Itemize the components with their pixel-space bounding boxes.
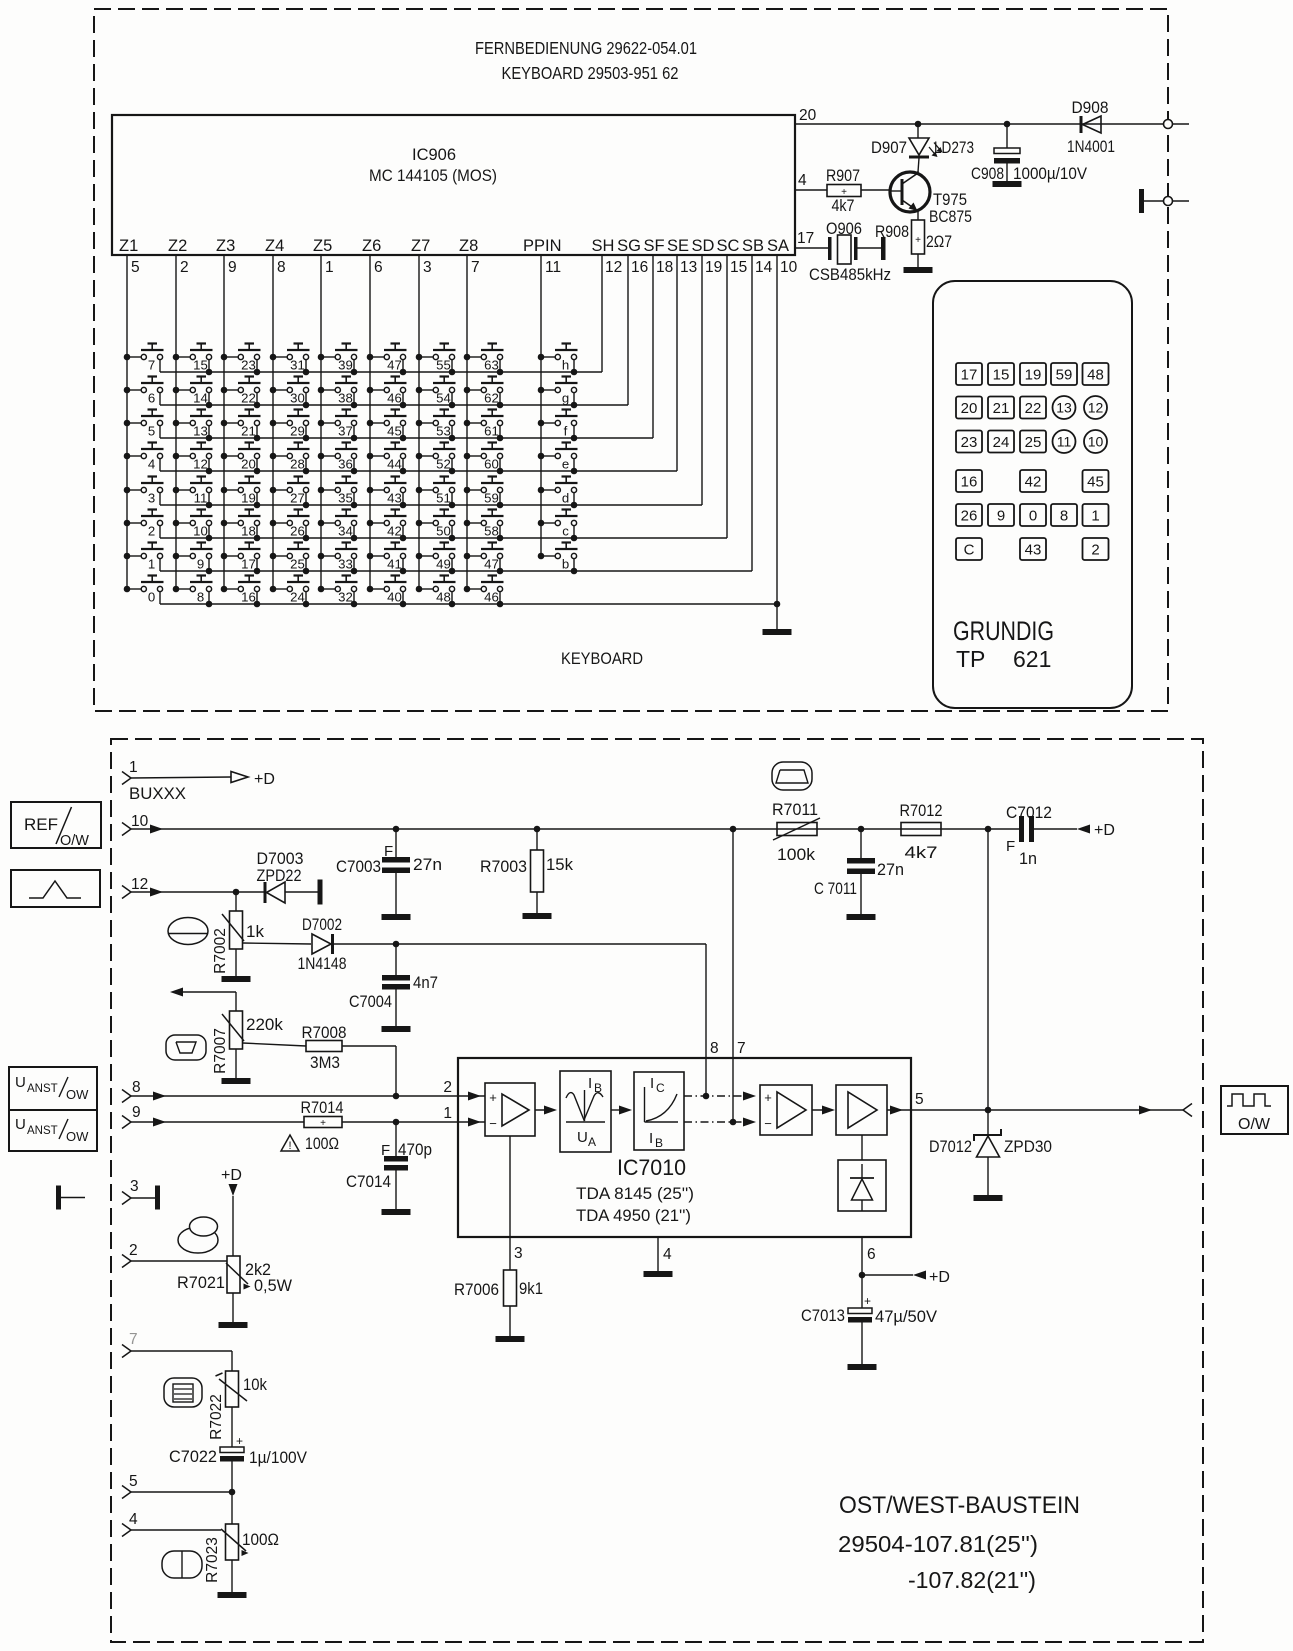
open arrow +D (BUXXX): [231, 771, 275, 788]
svg-text:1: 1: [148, 557, 155, 572]
wire row SC: [160, 537, 727, 539]
svg-text:IC7010: IC7010: [617, 1155, 686, 1180]
svg-text:50: 50: [436, 524, 451, 539]
svg-text:47: 47: [484, 557, 499, 572]
pushbutton key 60 (Z8 row4): [464, 443, 504, 475]
svg-text:g: g: [562, 391, 569, 406]
svg-text:32: 32: [338, 590, 353, 605]
svg-text:42: 42: [1025, 474, 1042, 491]
ground (C7004): [382, 1026, 411, 1032]
node net8/rowA: [703, 1093, 710, 1100]
pushbutton key 58 (Z8 row6): [464, 510, 504, 542]
svg-text:+D: +D: [254, 771, 275, 788]
label R7003: [480, 857, 527, 876]
svg-text:26: 26: [961, 508, 978, 525]
pushbutton key 38 (Z5 row2): [318, 377, 358, 409]
pushbutton key 23 (Z3 row1): [221, 344, 261, 376]
svg-text:C7003: C7003: [336, 857, 381, 876]
wire column Z2: [175, 255, 177, 589]
svg-text:46: 46: [387, 391, 402, 406]
IC906 pin label SH: [592, 237, 615, 255]
label 4 (pin): [663, 1246, 672, 1263]
svg-text:5: 5: [915, 1091, 924, 1108]
svg-text:27n: 27n: [413, 855, 442, 874]
svg-text:U: U: [15, 1074, 26, 1091]
left tag parabola pulse: [11, 870, 100, 907]
svg-text:C7013: C7013: [801, 1306, 845, 1325]
ground (C7003): [382, 914, 411, 920]
svg-text:+: +: [489, 1090, 497, 1105]
svg-text:c: c: [562, 524, 569, 539]
wire SA ground stem: [776, 604, 778, 629]
svg-text:R908: R908: [875, 222, 909, 241]
label F (C7012): [1006, 838, 1015, 855]
remote button 23: [956, 431, 982, 453]
svg-text:14: 14: [755, 259, 773, 276]
connector chevron output: [1183, 1104, 1192, 1117]
svg-text:2: 2: [180, 259, 189, 276]
trimmer icon (R7022): [164, 1378, 202, 1407]
wire column SA: [776, 255, 778, 604]
wire pin8 to IC7010 pin2: [131, 1092, 485, 1101]
svg-text:O/W: O/W: [60, 833, 89, 849]
label T975: [933, 190, 967, 209]
potentiometer R7023 100R: [221, 1524, 249, 1560]
buffer amp U1c: [836, 1085, 887, 1135]
pushbutton key 41 (Z6 row7): [367, 543, 407, 575]
svg-text:ZPD22: ZPD22: [257, 866, 302, 885]
svg-text:C7012: C7012: [1006, 803, 1052, 822]
svg-text:8: 8: [1060, 508, 1068, 525]
label 7 (net): [737, 1040, 746, 1057]
resistor R7014 100R: [304, 1117, 342, 1130]
svg-text:7: 7: [737, 1040, 746, 1057]
ground (R7023): [218, 1560, 247, 1598]
pushbutton key 33 (Z5 row7): [318, 543, 358, 575]
IC906 pin label SA: [767, 237, 789, 255]
transistor T975 BC875: [890, 171, 930, 220]
wire pin10 rail: [131, 825, 1019, 834]
wire R907 to base: [861, 189, 890, 191]
svg-text:GRUNDIG: GRUNDIG: [953, 616, 1054, 646]
svg-text:31: 31: [290, 358, 305, 373]
resistor R908: [912, 220, 925, 254]
svg-text:d: d: [562, 491, 569, 506]
potentiometer R7011 100k: [773, 818, 820, 840]
label 1n: [1019, 849, 1037, 868]
connector pin 7 (faint): [122, 1331, 138, 1358]
svg-text:C: C: [964, 542, 975, 559]
svg-text:Z2: Z2: [168, 237, 187, 255]
label R7007 (vertical): [212, 1028, 229, 1074]
TP 621 text: [956, 646, 1051, 672]
label D7012: [929, 1137, 972, 1156]
pushbutton key 50 (Z7 row6): [416, 510, 456, 542]
wire column Z7: [418, 255, 420, 589]
arrow feed (R7007 top): [170, 988, 236, 1012]
wire column SD: [701, 255, 703, 505]
zener D7012 ZPD30: [974, 1110, 1001, 1195]
node pin6: [859, 1272, 866, 1279]
label 8 (net): [710, 1040, 719, 1057]
IC906 pin label PPIN: [523, 237, 562, 255]
label D7002: [302, 915, 342, 934]
LED D907 LD273: [909, 124, 943, 172]
node net7/rowB: [730, 1119, 737, 1126]
pushbutton key 26 (Z4 row6): [270, 510, 310, 542]
ost/west module dashed frame: [111, 739, 1203, 1642]
pushbutton key 45 (Z6 row3): [367, 410, 407, 442]
pushbutton key 42 (Z6 row6): [367, 510, 407, 542]
wire row SE: [160, 470, 677, 472]
GRUNDIG TP621 remote outline: [933, 281, 1132, 708]
svg-text:5: 5: [129, 1473, 138, 1490]
ground (R7002): [222, 949, 251, 982]
wire IC pin6: [861, 1237, 863, 1275]
label F (C7014): [381, 1142, 390, 1159]
wire rowB dashdot: [684, 1118, 756, 1127]
svg-text:34: 34: [338, 524, 353, 539]
svg-text:Z8: Z8: [459, 237, 478, 255]
label ZPD30: [1004, 1137, 1052, 1156]
svg-text:54: 54: [436, 391, 451, 406]
wire R7002 wiper to D7002: [243, 943, 312, 944]
ground (R7007): [222, 1049, 251, 1084]
svg-text:16: 16: [631, 259, 648, 276]
svg-text:−: −: [489, 1116, 497, 1131]
wire pin3 to terminal: [131, 1197, 155, 1199]
svg-text:+: +: [864, 1294, 871, 1308]
label ZPD22: [257, 866, 302, 885]
pushbutton key e (PPIN row4): [538, 443, 578, 475]
wire column PPIN: [540, 255, 542, 556]
svg-text:36: 36: [338, 457, 353, 472]
wire IC pin4: [657, 1237, 659, 1271]
svg-text:C7014: C7014: [346, 1172, 391, 1191]
svg-text:R7007: R7007: [212, 1028, 229, 1074]
IC906 pin number 2 (Z2): [180, 259, 189, 276]
svg-text:29504-107.81(25''): 29504-107.81(25''): [838, 1531, 1038, 1557]
svg-text:+D: +D: [1094, 822, 1115, 839]
svg-text:SG: SG: [617, 237, 641, 255]
svg-text:e: e: [562, 457, 569, 472]
svg-text:22: 22: [1025, 400, 1042, 417]
svg-text:R7006: R7006: [454, 1280, 499, 1299]
svg-text:17: 17: [241, 557, 256, 572]
block IC/IB: [634, 1072, 684, 1150]
wire pin17 to crystal: [795, 247, 828, 249]
label 27n (C7003): [413, 855, 442, 874]
svg-text:47µ/50V: 47µ/50V: [875, 1307, 938, 1326]
svg-text:46: 46: [484, 590, 499, 605]
wire net8 vertical: [705, 944, 707, 1096]
wire column SC: [726, 255, 728, 538]
svg-text:LD273: LD273: [934, 138, 974, 157]
label 2R7: [926, 232, 952, 251]
+D feed (pin6): [862, 1269, 950, 1286]
connector pin 5: [122, 1473, 138, 1499]
wire column SB: [751, 255, 753, 571]
svg-text:16: 16: [241, 590, 256, 605]
svg-text:13: 13: [680, 259, 697, 276]
pushbutton key c (PPIN row6): [538, 510, 578, 542]
svg-text:60: 60: [484, 457, 499, 472]
connector pin 2: [122, 1242, 138, 1268]
svg-text:OW: OW: [66, 1087, 89, 1102]
label 10k: [243, 1375, 267, 1394]
IC906 pin label Z1: [119, 237, 138, 255]
svg-text:15: 15: [730, 259, 747, 276]
diode D7002 1N4148: [312, 934, 334, 954]
label 27n (C7011): [877, 860, 904, 879]
svg-text:20: 20: [961, 400, 978, 417]
remote button 19: [1020, 363, 1046, 385]
resistor R7006 9k1: [504, 1270, 517, 1306]
svg-text:R7023: R7023: [204, 1537, 221, 1583]
IC906 pin number 14 (SB): [755, 259, 773, 276]
svg-text:SE: SE: [667, 237, 689, 255]
svg-text:6: 6: [374, 259, 383, 276]
node pin10 rail / net7: [730, 826, 737, 833]
svg-text:+D: +D: [929, 1269, 950, 1286]
remote button 0: [1020, 504, 1046, 526]
connector pin 3: [122, 1178, 139, 1205]
svg-text:SC: SC: [717, 237, 740, 255]
wire column SE: [676, 255, 678, 471]
svg-text:18: 18: [241, 524, 256, 539]
svg-text:42: 42: [387, 524, 402, 539]
resistor R7003: [531, 826, 544, 913]
svg-text:22: 22: [241, 391, 256, 406]
svg-text:U: U: [15, 1116, 26, 1133]
svg-text:I: I: [649, 1130, 653, 1147]
label 1000u/10V: [1013, 164, 1088, 183]
svg-text:D908: D908: [1072, 98, 1109, 117]
IC906 pin label SE: [667, 237, 689, 255]
svg-text:9: 9: [197, 557, 204, 572]
pushbutton key d (PPIN row5): [538, 477, 578, 509]
IC906 pin label SB: [742, 237, 764, 255]
IC906 pin number 1 (Z5): [325, 259, 334, 276]
pushbutton key 29 (Z4 row3): [270, 410, 310, 442]
svg-text:100Ω: 100Ω: [242, 1530, 279, 1549]
svg-text:470p: 470p: [398, 1140, 432, 1159]
svg-text:58: 58: [484, 524, 499, 539]
label 1u/100V: [249, 1448, 308, 1467]
remote button 48: [1083, 363, 1109, 385]
svg-text:PPIN: PPIN: [523, 237, 562, 255]
node pin12/R7002: [233, 889, 240, 896]
label D907: [871, 138, 907, 157]
label 100R: [305, 1135, 339, 1153]
left tag UANST/OW (1): [9, 1067, 97, 1110]
pushbutton key 63 (Z8 row1): [464, 344, 504, 376]
label BC875: [929, 207, 972, 226]
label LD273: [934, 138, 974, 157]
pushbutton key 28 (Z4 row4): [270, 443, 310, 475]
svg-text:1k: 1k: [246, 922, 264, 941]
remote button 11: [1053, 430, 1076, 453]
wire column SH: [601, 255, 603, 372]
svg-text:TDA 4950 (21''): TDA 4950 (21''): [576, 1206, 691, 1225]
svg-text:CSB485kHz: CSB485kHz: [809, 265, 891, 284]
wire R7014 to IC7010 pin1: [342, 1118, 485, 1127]
svg-text:16: 16: [961, 474, 978, 491]
svg-text:12: 12: [131, 876, 148, 893]
svg-text:20: 20: [241, 457, 256, 472]
svg-text:+: +: [915, 235, 921, 246]
svg-text:43: 43: [387, 491, 402, 506]
svg-text:4: 4: [129, 1511, 138, 1528]
pushbutton key 39 (Z5 row1): [318, 344, 358, 376]
protection diode box: [838, 1135, 886, 1211]
wire R908 to ground: [917, 254, 919, 267]
pushbutton key 24 (Z4 row8): [270, 576, 310, 608]
svg-text:3M3: 3M3: [310, 1053, 340, 1072]
pushbutton key 15 (Z2 row1): [173, 344, 213, 376]
terminal bar (pin3): [155, 1186, 160, 1210]
pushbutton key 13 (Z2 row3): [173, 410, 213, 442]
label C7003: [336, 857, 381, 876]
IC7010 pin 1 label: [443, 1105, 452, 1122]
svg-text:8: 8: [277, 259, 286, 276]
svg-text:2Ω7: 2Ω7: [926, 232, 952, 251]
svg-text:Z7: Z7: [411, 237, 430, 255]
junction SA to ground: [774, 601, 781, 608]
svg-text:2: 2: [129, 1242, 138, 1259]
ground (keyboard matrix): [763, 629, 792, 635]
svg-text:7: 7: [471, 259, 480, 276]
label 1N4001: [1067, 137, 1115, 156]
IC906 pin label Z2: [168, 237, 187, 255]
label D908: [1072, 98, 1109, 117]
svg-text:1: 1: [1091, 508, 1099, 525]
svg-text:KEYBOARD: KEYBOARD: [561, 649, 643, 668]
svg-text:20: 20: [799, 107, 817, 124]
label C7011: [814, 879, 857, 898]
label 3M3: [310, 1053, 340, 1072]
svg-text:C7004: C7004: [349, 992, 392, 1011]
svg-text:44: 44: [387, 457, 402, 472]
MC 144105 (MOS) label: [369, 166, 497, 185]
svg-text:SD: SD: [692, 237, 715, 255]
pushbutton key 19 (Z3 row5): [221, 477, 261, 509]
IC906 pin number 11 (PPIN): [545, 259, 561, 276]
svg-text:11: 11: [545, 259, 561, 276]
IC7010 box: [458, 1058, 911, 1237]
svg-text:4: 4: [148, 457, 155, 472]
svg-text:621: 621: [1013, 646, 1051, 672]
pushbutton key 43 (Z6 row5): [367, 477, 407, 509]
pushbutton key 14 (Z2 row2): [173, 377, 213, 409]
ground (R7006): [496, 1306, 525, 1342]
label 3 (pin): [514, 1245, 523, 1262]
potentiometer R7002 1k: [222, 892, 244, 949]
wire pin7 to R7022: [131, 1351, 232, 1371]
svg-text:A: A: [588, 1135, 596, 1149]
svg-text:REF: REF: [24, 815, 58, 834]
svg-text:b: b: [562, 557, 569, 572]
pushbutton key 1 (Z1 row7): [124, 543, 164, 572]
+D feed (C7012): [1077, 822, 1115, 839]
terminal bar + circle (return): [1139, 189, 1189, 213]
wire D7002 to pin8 node: [334, 943, 706, 945]
svg-text:0,5W: 0,5W: [254, 1276, 292, 1295]
trimmer icon (R7021): [178, 1217, 218, 1253]
svg-text:28: 28: [290, 457, 305, 472]
svg-text:19: 19: [705, 259, 722, 276]
label C7014: [346, 1172, 391, 1191]
svg-text:21: 21: [241, 424, 256, 439]
svg-text:59: 59: [484, 491, 499, 506]
svg-text:33: 33: [338, 557, 353, 572]
wire IC pin3: [509, 1136, 511, 1270]
svg-text:17: 17: [797, 230, 814, 247]
svg-text:61: 61: [484, 424, 499, 439]
svg-text:−: −: [764, 1116, 772, 1131]
ground (R908): [904, 267, 933, 273]
svg-text:1000µ/10V: 1000µ/10V: [1013, 164, 1088, 183]
label R7011: [772, 800, 818, 819]
svg-text:23: 23: [961, 434, 978, 451]
pushbutton key 16 (Z3 row8): [221, 576, 261, 608]
IC906 pin label SD: [692, 237, 715, 255]
pushbutton key 2 (Z1 row6): [124, 510, 164, 539]
label CSB485kHz: [809, 265, 891, 284]
svg-text:FERNBEDIENUNG 29622-054.01: FERNBEDIENUNG 29622-054.01: [475, 38, 697, 58]
remote button 1: [1083, 504, 1109, 526]
label TDA 8145 (25"): [576, 1184, 694, 1203]
svg-text:C7022: C7022: [169, 1447, 217, 1466]
IC906 pin 4 label: [798, 172, 807, 189]
svg-text:+: +: [236, 1434, 243, 1448]
pushbutton key 11 (Z2 row5): [173, 477, 213, 509]
IC906 pin number 19 (SD): [705, 259, 722, 276]
remote button 16: [956, 470, 982, 492]
svg-text:f: f: [564, 424, 568, 439]
pushbutton key 46 (Z6 row2): [367, 377, 407, 409]
wire R7008 to pin2 node: [342, 1046, 396, 1096]
svg-text:25: 25: [290, 557, 305, 572]
svg-text:100Ω: 100Ω: [305, 1135, 339, 1153]
remote button 24: [988, 431, 1014, 453]
pushbutton key 44 (Z6 row4): [367, 443, 407, 475]
keyboard unit dashed frame: [94, 9, 1168, 711]
svg-text:SB: SB: [742, 237, 764, 255]
label 47u/50V: [875, 1307, 938, 1326]
svg-text:38: 38: [338, 391, 353, 406]
remote button 59: [1051, 363, 1077, 385]
svg-text:B: B: [655, 1136, 663, 1150]
trimmer icon (R7011): [772, 762, 812, 790]
svg-text:I: I: [650, 1075, 654, 1092]
svg-text:10: 10: [193, 524, 208, 539]
IC906 pin number 16 (SG): [631, 259, 648, 276]
IC906 pin label Z6: [362, 237, 381, 255]
label R7012: [900, 801, 943, 820]
pushbutton key 5 (Z1 row3): [124, 410, 164, 439]
svg-text:6: 6: [148, 391, 155, 406]
label 4k7: [832, 196, 855, 215]
svg-text:45: 45: [387, 424, 402, 439]
wire row SA: [160, 603, 777, 605]
remote button 25: [1020, 431, 1046, 453]
svg-text:8: 8: [132, 1079, 141, 1096]
resistor R7012 4k7: [901, 823, 941, 836]
svg-text:47: 47: [387, 358, 402, 373]
svg-text:R7002: R7002: [212, 928, 229, 974]
svg-text:19: 19: [1025, 367, 1042, 384]
